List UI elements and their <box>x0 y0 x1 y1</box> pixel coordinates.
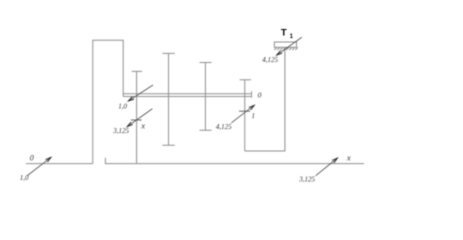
baseline right segment <box>105 158 364 164</box>
svg-text:0: 0 <box>258 91 262 100</box>
svg-text:3,125: 3,125 <box>112 127 129 135</box>
left step structure <box>93 40 123 163</box>
support hatching <box>274 47 297 50</box>
svg-text:1,0: 1,0 <box>118 103 127 111</box>
arrow bottom-right <box>316 158 338 176</box>
tick on hanger A <box>131 119 142 121</box>
arrow leader 4,125 (top support) <box>277 37 302 55</box>
svg-text:4,125: 4,125 <box>262 56 278 64</box>
right bracket (bottom + tall right side) <box>245 49 286 151</box>
beam (double line rod) <box>123 94 251 97</box>
arrow leader 1,0 (mid-left at beam) <box>128 85 153 101</box>
svg-text:x: x <box>346 153 351 163</box>
svg-text:0: 0 <box>30 154 34 163</box>
svg-text:1: 1 <box>252 112 256 120</box>
svg-text:T: T <box>281 28 287 39</box>
arrow bottom-left <box>28 157 52 175</box>
support bar T1 <box>274 42 296 47</box>
hanger A <box>132 71 142 163</box>
svg-text:1,0: 1,0 <box>20 174 29 182</box>
hanger C <box>200 63 212 131</box>
arrow leader 4,125 / 1 (mid-right) <box>231 105 254 123</box>
svg-text:3,125: 3,125 <box>298 175 315 183</box>
beam right end tick <box>251 91 253 98</box>
hanger B <box>162 53 174 145</box>
label T1 (support name) <box>281 28 294 41</box>
tick on hanger D <box>239 110 250 112</box>
svg-text:4,125: 4,125 <box>216 123 232 131</box>
baseline left segment <box>26 163 93 165</box>
svg-text:x: x <box>140 120 145 130</box>
arrow leader 3,125 / x <box>127 109 152 127</box>
hanger D <box>240 80 251 151</box>
